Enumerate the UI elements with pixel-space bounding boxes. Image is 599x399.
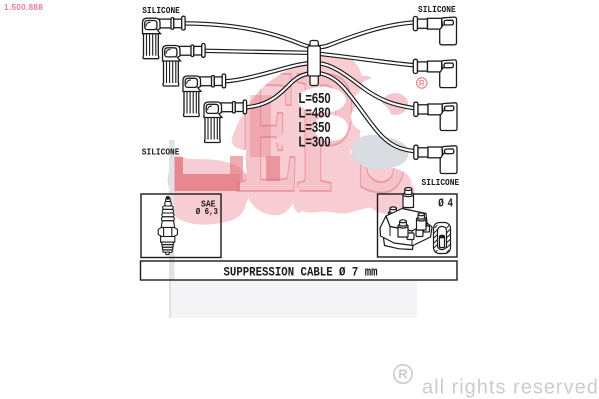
svg-text:4: 4 [448, 197, 454, 210]
svg-text:SILICONE: SILICONE [418, 5, 456, 16]
svg-text:Ø: Ø [438, 197, 444, 210]
svg-text:R: R [398, 367, 408, 382]
svg-text:SILICONE: SILICONE [142, 5, 180, 16]
svg-text:all rights reserved: all rights reserved [422, 377, 599, 399]
svg-text:R: R [419, 79, 425, 88]
svg-text:SUPPRESSION CABLE Ø 7 mm: SUPPRESSION CABLE Ø 7 mm [224, 265, 378, 280]
svg-text:SILICONE: SILICONE [422, 178, 460, 189]
svg-text:Ø 6,3: Ø 6,3 [196, 206, 218, 217]
svg-text:L=300: L=300 [299, 133, 331, 150]
svg-text:1.500.888: 1.500.888 [4, 3, 43, 12]
svg-text:SILICONE: SILICONE [142, 147, 180, 158]
